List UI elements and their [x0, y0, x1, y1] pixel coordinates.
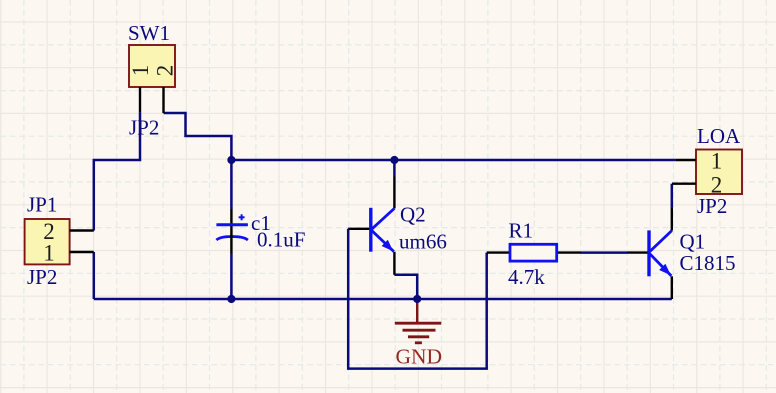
junction top rail / C1: [227, 156, 235, 164]
pin SW1.2: [162, 87, 164, 113]
wire top rail: [231, 159, 675, 162]
svg-text:2: 2: [711, 173, 723, 198]
pin R1 right: [557, 251, 581, 253]
svg-text:C1815: C1815: [680, 251, 736, 275]
pin Q1 emitter: [671, 276, 673, 299]
pin LOA.2: [672, 182, 696, 184]
junction top rail / Q2 collector: [390, 156, 398, 164]
svg-text:R1: R1: [509, 219, 534, 243]
svg-text:0.1uF: 0.1uF: [257, 228, 305, 252]
pin Q1 base: [627, 251, 648, 253]
wire C1 bottom: [230, 254, 233, 300]
ground GND: [395, 299, 442, 343]
wire C1 top: [230, 160, 233, 209]
svg-text:4.7k: 4.7k: [508, 265, 545, 289]
svg-text:SW1: SW1: [128, 21, 170, 45]
resistor R1: [510, 244, 557, 261]
transistor Q1: [649, 230, 672, 276]
pin Q2 collector: [393, 177, 395, 209]
svg-text:1: 1: [43, 241, 55, 266]
svg-text:Q1: Q1: [680, 230, 706, 254]
pin LOA.1: [675, 159, 696, 161]
svg-text:1: 1: [128, 65, 153, 77]
wire SW1 pin1 to JP1 pin2: [94, 113, 140, 231]
capacitor c1: [216, 209, 248, 254]
svg-text:JP2: JP2: [27, 265, 57, 289]
svg-text:um66: um66: [399, 230, 447, 254]
wire Q2 base loop to R1: [348, 229, 487, 369]
connector JP1: [25, 219, 70, 264]
junction bottom rail / GND: [413, 295, 421, 303]
wire Q2 emitter to bottom rail: [394, 275, 417, 299]
junction bottom rail / C1: [227, 295, 235, 303]
pin Q2 emitter: [393, 252, 395, 275]
svg-text:2: 2: [153, 65, 178, 77]
svg-text:1: 1: [711, 148, 723, 173]
svg-text:GND: GND: [396, 344, 443, 368]
pin JP1.1: [70, 251, 94, 253]
wire SW1 pin2 to top rail: [164, 113, 232, 160]
connector SW1: [129, 45, 175, 87]
connector LOA: [696, 150, 742, 195]
svg-text:JP1: JP1: [27, 193, 57, 217]
pin R1 left: [487, 251, 510, 253]
pin SW1.1: [139, 87, 141, 113]
pin Q2 base: [348, 228, 369, 230]
wire R1 to Q1 base: [581, 251, 627, 254]
transistor Q2: [371, 208, 395, 252]
svg-text:LOA: LOA: [697, 124, 741, 148]
svg-text:JP2: JP2: [129, 116, 159, 140]
pin JP1.2: [70, 229, 94, 231]
svg-text:Q2: Q2: [400, 203, 426, 227]
wire Q2 collector to top rail: [393, 160, 396, 177]
wire JP1 pin1 to bottom rail: [93, 252, 96, 299]
pin Q1 collector: [671, 208, 673, 231]
wire bottom rail: [94, 298, 672, 301]
wire LOA pin2 to Q1 collector: [671, 184, 674, 208]
